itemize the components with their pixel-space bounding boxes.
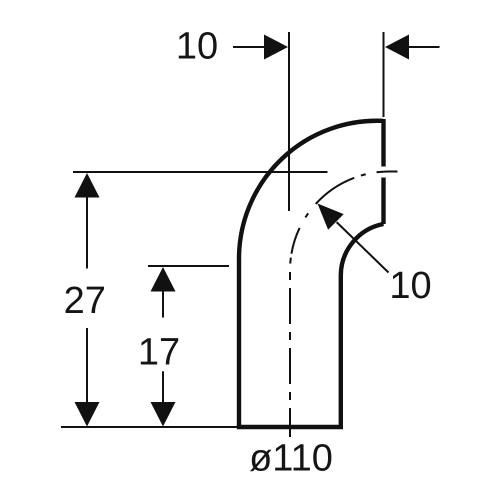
svg-text:27: 27 [64,280,106,322]
svg-text:10: 10 [389,265,431,307]
svg-text:17: 17 [138,332,180,374]
svg-text:ø110: ø110 [249,438,333,480]
svg-text:10: 10 [176,26,218,68]
